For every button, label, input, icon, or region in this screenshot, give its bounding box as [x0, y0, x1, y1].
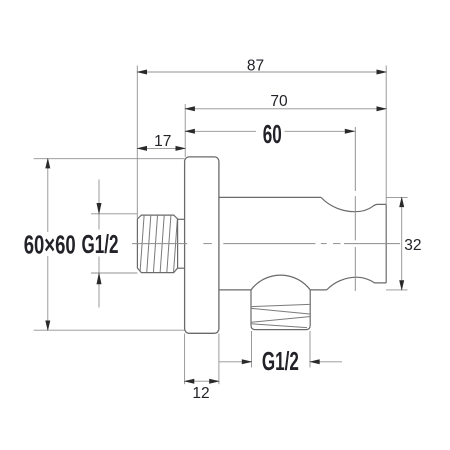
svg-text:32: 32 — [404, 237, 421, 254]
left G1/2 arrow lines — [98, 180, 100, 230]
dimension 60 line — [185, 130, 256, 132]
body arm bottom edge right of outlet — [310, 289, 327, 291]
dimension 70 extension line left — [184, 104, 186, 157]
dimension 12 line — [185, 380, 219, 382]
dimension 87 line — [137, 71, 386, 73]
neck between thread and plate — [178, 218, 185, 220]
svg-text:G1/2: G1/2 — [262, 346, 299, 376]
dimension 12 left extension line — [184, 334, 186, 385]
left G1/2 top extension line — [91, 213, 137, 215]
body arm bottom edge left of outlet — [219, 289, 251, 291]
bottom G1/2 left extension line — [251, 331, 253, 368]
wall plate (escutcheon, side view) — [185, 157, 219, 333]
svg-text:G1/2: G1/2 — [82, 229, 119, 259]
outlet dome — [251, 275, 310, 290]
bottom G1/2 right arrow line — [310, 361, 342, 363]
svg-text:12: 12 — [192, 385, 209, 402]
bottom G1/2 right extension line — [309, 331, 311, 368]
dimension 60x60 top extension line — [34, 158, 185, 160]
svg-text:87: 87 — [247, 57, 264, 74]
dimension 60x60 line — [47, 159, 49, 232]
bottom G1/2 left arrow line — [219, 361, 252, 363]
dimension 60x60 bottom extension line — [34, 329, 185, 331]
body arm top edge — [219, 196, 321, 198]
dimension 32 top extension line — [386, 196, 407, 198]
svg-text:60: 60 — [263, 119, 282, 149]
dimension 87 extension line left — [136, 66, 138, 219]
svg-text:60×60: 60×60 — [24, 230, 76, 260]
horizontal centerline — [132, 243, 400, 245]
outlet collar thread lines — [252, 304, 310, 327]
dimension 87/70 extension line right — [385, 66, 387, 205]
holder top scallop — [321, 197, 386, 211]
holder bottom scallop — [327, 277, 387, 290]
dimension 12 right extension line — [218, 334, 220, 385]
dimension 17 line — [137, 147, 185, 149]
wall thread G1/2 left fitting outline — [137, 215, 177, 273]
left G1/2 bottom extension line — [91, 272, 137, 274]
body right edge — [385, 204, 387, 283]
holder vertical centerline — [354, 127, 356, 291]
dimension 32 line — [401, 197, 403, 290]
dimension 32 bottom extension line — [386, 289, 408, 291]
outlet threaded collar — [251, 290, 310, 330]
svg-text:70: 70 — [270, 93, 288, 110]
svg-text:17: 17 — [154, 133, 171, 150]
dimension 70 line — [185, 108, 386, 110]
